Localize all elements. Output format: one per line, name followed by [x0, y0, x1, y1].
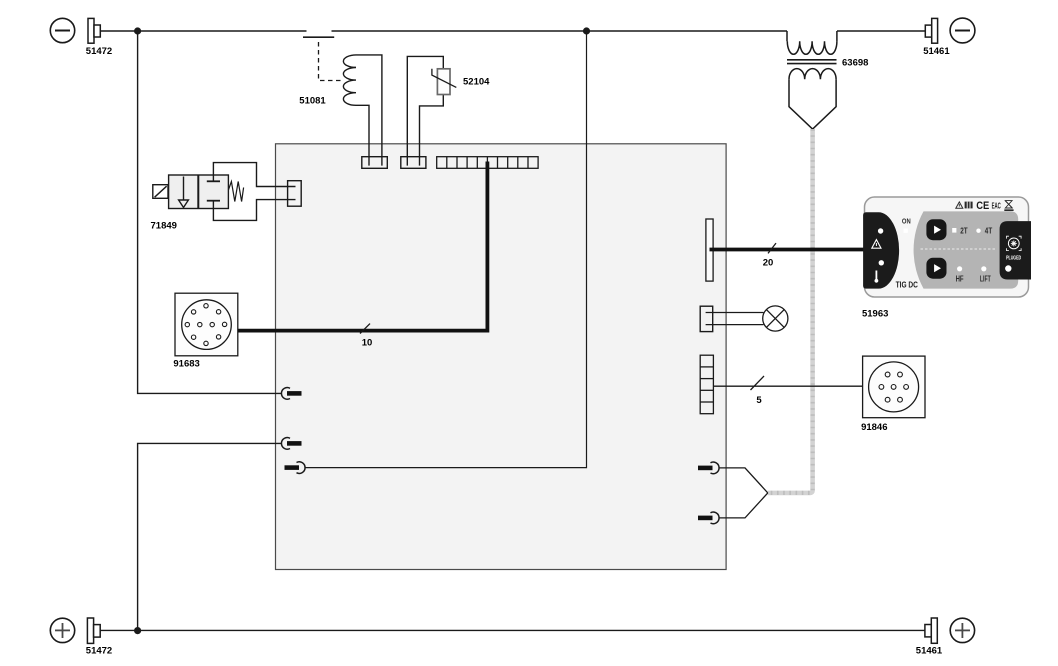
panel 2T LED	[952, 228, 956, 233]
svg-text:CE: CE	[976, 200, 989, 212]
connector block X3 (10-pin)	[437, 157, 538, 169]
wire 51081 bottom lead	[356, 105, 369, 165]
wire valve bottom lead	[213, 200, 295, 221]
svg-text:EAC: EAC	[992, 200, 1001, 210]
panel gray center	[914, 211, 1019, 288]
slash wire 10	[360, 324, 370, 334]
PCB board box	[276, 144, 727, 570]
connector 91683	[175, 293, 238, 356]
connector 91846	[863, 356, 925, 418]
wire 10 (thick)	[238, 162, 488, 331]
wire lamp top	[706, 312, 764, 314]
svg-text:91683: 91683	[173, 359, 199, 370]
node junction bottom-left	[134, 627, 141, 634]
wire 5	[713, 385, 863, 387]
svg-text:HF: HF	[956, 273, 964, 283]
terminal plus 51472 (bottom left)	[50, 618, 100, 643]
varistor 52104	[437, 69, 450, 95]
svg-text:51461: 51461	[916, 646, 943, 657]
node junction top-mid	[583, 27, 590, 34]
wire dashed link 51081	[319, 42, 342, 81]
svg-text:2T: 2T	[960, 226, 967, 236]
slash wire 20	[768, 243, 776, 253]
wire top bus right segment	[837, 30, 925, 32]
panel LIFT LED	[981, 266, 986, 271]
wire left vertical to faston 1	[138, 31, 282, 393]
svg-text:20: 20	[763, 258, 774, 269]
connector block X2 (2-pin)	[401, 157, 426, 169]
connector bar (wire 20)	[706, 219, 713, 281]
wire valve top lead	[213, 163, 295, 187]
svg-text:TIG DC: TIG DC	[896, 280, 918, 290]
wire top bus left segment	[100, 30, 306, 32]
wire top bus mid segment	[332, 30, 788, 32]
wire bottom bus	[100, 629, 925, 631]
svg-text:71849: 71849	[151, 221, 177, 232]
faston right edge bottom	[698, 516, 713, 521]
panel black left shape	[863, 212, 899, 288]
svg-text:52104: 52104	[463, 77, 490, 88]
svg-text:PLUGED: PLUGED	[1006, 256, 1021, 262]
wire lamp bottom	[706, 324, 764, 326]
inductor 51081 coil	[343, 55, 356, 105]
connector block X1 (2-pin)	[362, 157, 388, 169]
faston terminal 3	[285, 465, 300, 470]
svg-text:63698: 63698	[842, 58, 868, 69]
wire inner net from top junction to faston 3	[305, 31, 586, 468]
svg-text:51081: 51081	[299, 96, 326, 107]
panel black right block	[1000, 221, 1031, 279]
inductor 51081 pickup bar	[303, 36, 334, 38]
svg-text:91846: 91846	[861, 422, 887, 433]
wire 52104 left lead	[407, 56, 443, 165]
svg-text:5: 5	[756, 395, 762, 406]
connector valve board	[288, 181, 302, 207]
svg-text:4T: 4T	[985, 226, 992, 236]
wire 20 (thick)	[710, 248, 867, 252]
faston right edge top	[698, 466, 713, 471]
node junction top-left	[134, 27, 141, 34]
wire 51081 top lead	[356, 55, 382, 166]
faston terminal 1	[287, 391, 302, 396]
svg-text:51472: 51472	[86, 646, 112, 657]
panel icons row	[956, 202, 963, 208]
svg-text:51963: 51963	[862, 308, 888, 319]
svg-text:10: 10	[362, 338, 373, 349]
terminal minus 51461 (top right)	[925, 18, 975, 43]
svg-text:51461: 51461	[923, 46, 950, 57]
svg-text:LIFT: LIFT	[980, 273, 991, 283]
connector 5-pin	[700, 355, 713, 414]
panel 4T LED	[976, 229, 980, 233]
faston terminal 2	[287, 441, 302, 446]
shielded HF cable (gray)	[768, 129, 813, 493]
wire left vertical bottom to faston 2	[138, 443, 282, 631]
lamp indicator	[763, 306, 788, 331]
wire faston bottom to HF point	[719, 493, 768, 518]
svg-text:ON: ON	[902, 219, 911, 226]
panel button up	[926, 219, 946, 240]
connector lamp	[700, 306, 713, 331]
svg-text:51472: 51472	[86, 46, 112, 57]
control panel 51963	[863, 197, 1031, 297]
panel HF LED	[957, 266, 962, 271]
wire 52104 right lead	[420, 95, 444, 166]
terminal plus 51461 (bottom right)	[925, 618, 975, 643]
solenoid valve 71849	[153, 175, 244, 209]
panel dashed divider	[921, 248, 997, 250]
terminal minus 51472	[50, 18, 100, 43]
panel button down	[926, 258, 946, 279]
wire faston top to HF point	[719, 468, 768, 493]
slash wire 5	[751, 376, 765, 390]
transformer 63698	[787, 31, 837, 129]
